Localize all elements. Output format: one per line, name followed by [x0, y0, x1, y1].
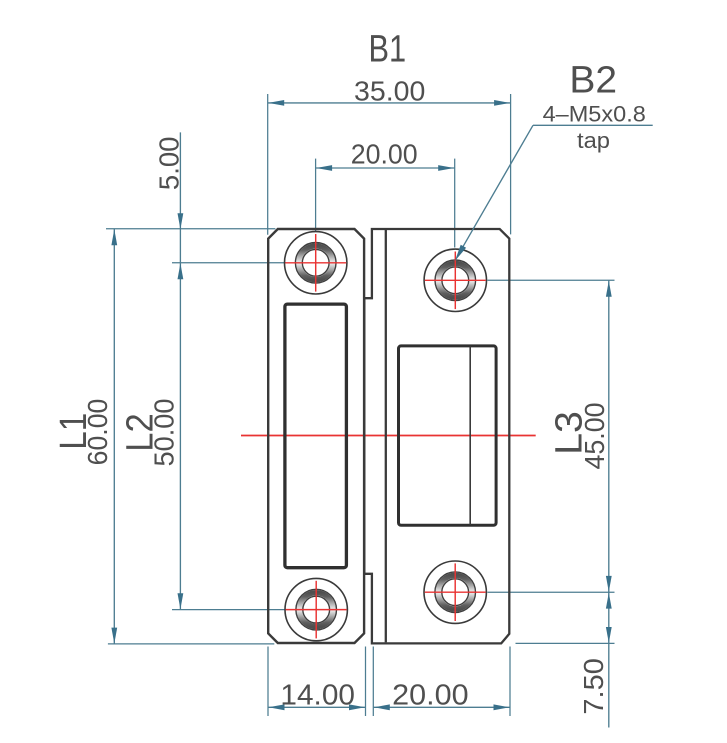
svg-text:20.00: 20.00 [351, 139, 418, 170]
svg-text:5.00: 5.00 [154, 137, 185, 191]
svg-text:tap: tap [577, 128, 610, 153]
svg-text:50.00: 50.00 [149, 399, 180, 467]
svg-text:B1: B1 [369, 29, 407, 71]
svg-text:45.00: 45.00 [579, 403, 610, 470]
svg-text:60.00: 60.00 [82, 399, 113, 466]
svg-text:B2: B2 [569, 60, 617, 102]
svg-text:4–M5x0.8: 4–M5x0.8 [543, 101, 646, 126]
svg-text:35.00: 35.00 [354, 76, 425, 107]
svg-text:7.50: 7.50 [578, 658, 609, 714]
svg-text:14.00: 14.00 [280, 680, 355, 712]
svg-text:20.00: 20.00 [392, 680, 468, 712]
